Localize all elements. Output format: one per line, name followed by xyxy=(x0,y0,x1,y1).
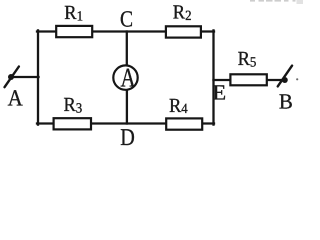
resistor R3 xyxy=(54,118,91,129)
resistor R1 xyxy=(56,26,92,37)
resistor R5 xyxy=(230,74,266,85)
wire ammeter to node D xyxy=(126,90,128,124)
svg-text:C: C xyxy=(120,7,133,32)
svg-text:R2: R2 xyxy=(173,2,192,24)
wire A terminal to left rail xyxy=(11,76,39,78)
ammeter U1 xyxy=(113,65,137,89)
svg-text:E: E xyxy=(212,80,226,104)
wire node C to ammeter xyxy=(126,32,128,66)
svg-text:B: B xyxy=(279,89,293,113)
terminal A switch slash xyxy=(5,67,19,88)
ink speck right of B xyxy=(296,78,298,80)
wire node E to R5 xyxy=(214,79,233,81)
svg-text:A: A xyxy=(8,85,23,110)
svg-text:R1: R1 xyxy=(64,2,83,24)
wire right rail xyxy=(212,30,214,124)
svg-text:A: A xyxy=(121,63,136,93)
svg-text:D: D xyxy=(120,125,135,151)
svg-text:R5: R5 xyxy=(238,48,257,70)
wire top side xyxy=(37,30,214,32)
wire bottom side xyxy=(37,122,214,124)
terminal B switch slash xyxy=(278,66,292,87)
terminal B dot xyxy=(282,77,288,83)
svg-text:R3: R3 xyxy=(64,94,83,116)
terminal A dot xyxy=(8,74,14,80)
wire left rail xyxy=(37,30,39,124)
faint cropped text at top edge xyxy=(250,0,303,4)
svg-text:R4: R4 xyxy=(169,95,188,117)
resistor R2 xyxy=(166,26,201,37)
resistor R4 xyxy=(166,118,202,129)
wire R5 to terminal B xyxy=(265,79,284,81)
